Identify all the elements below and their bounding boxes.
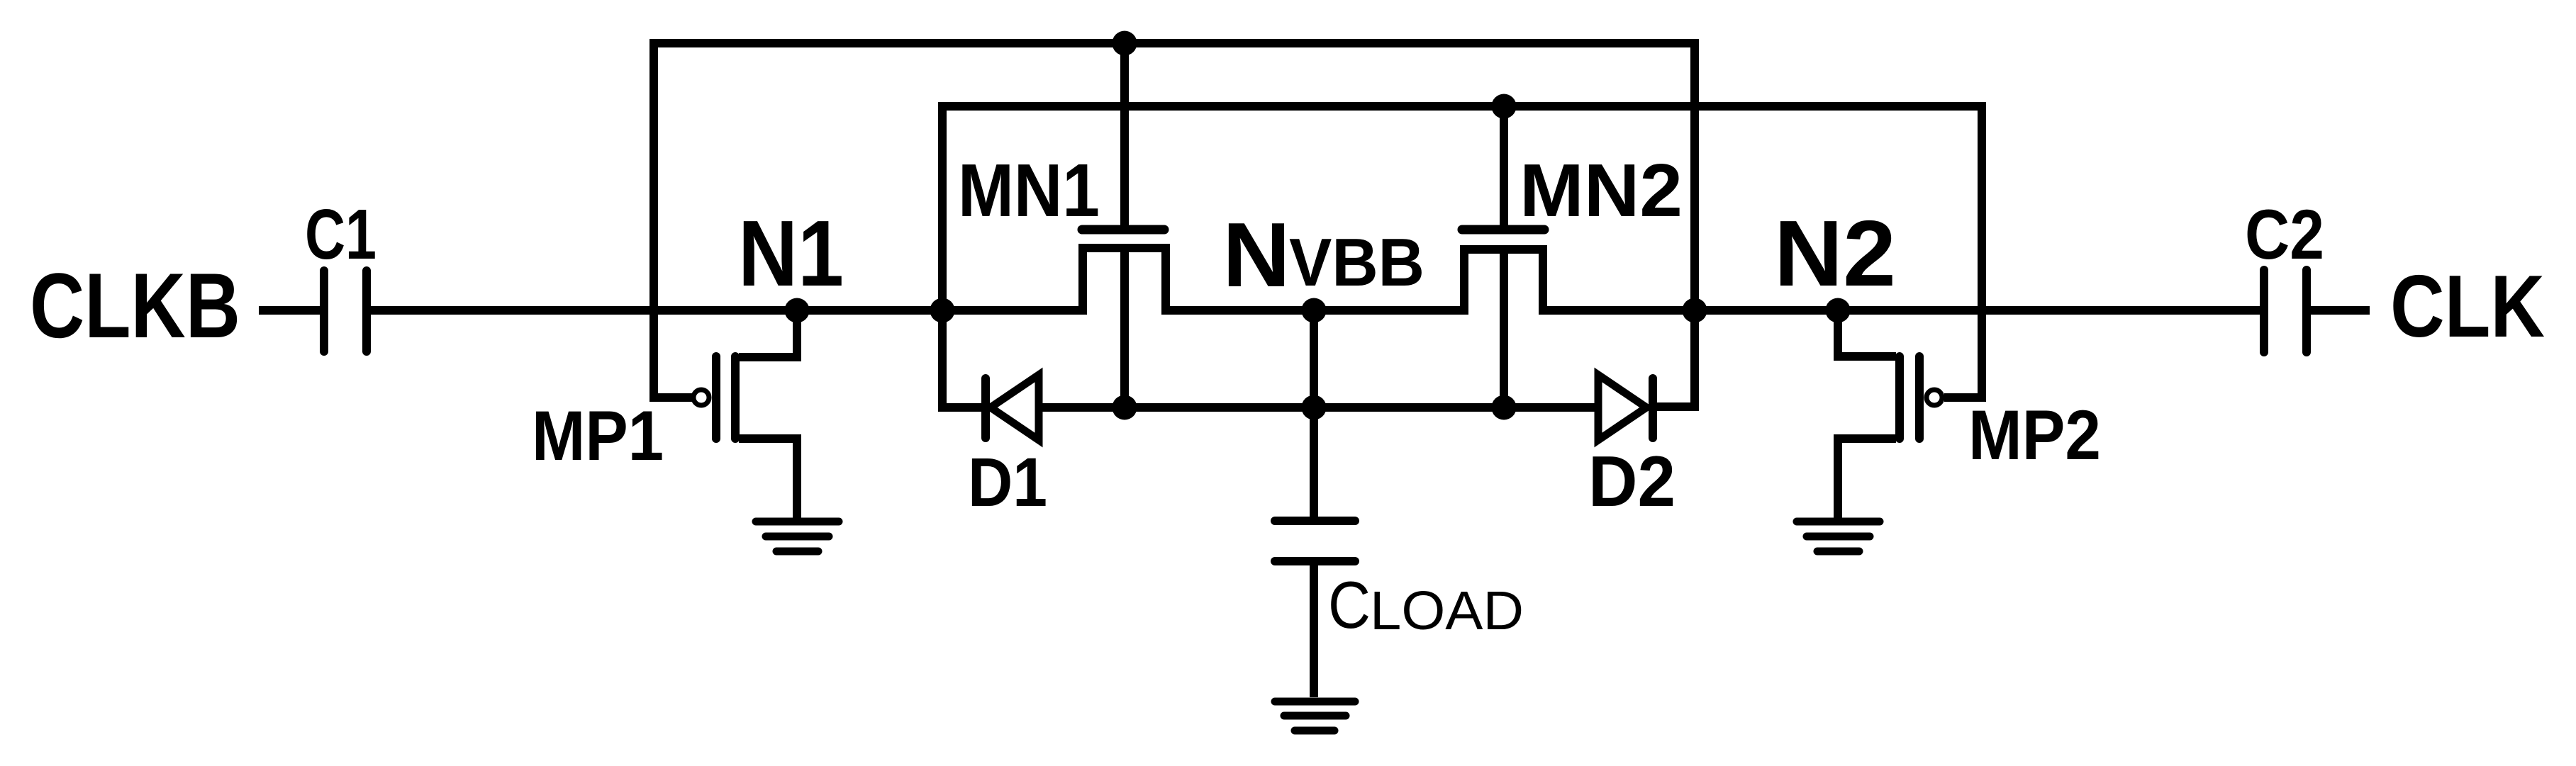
svg-text:MN1: MN1	[958, 149, 1100, 232]
svg-text:CLK: CLK	[2390, 258, 2545, 356]
svg-text:CLKB: CLKB	[30, 254, 240, 357]
svg-text:VBB: VBB	[1289, 225, 1424, 300]
ground (MP1)	[756, 522, 839, 551]
svg-text:MP2: MP2	[1968, 395, 2101, 474]
svg-text:N: N	[1222, 204, 1290, 306]
ground (CLOAD)	[1275, 702, 1355, 731]
ground (MP2)	[1797, 522, 1880, 551]
wire CLKB to C1	[259, 306, 320, 315]
capacitor CLOAD	[1275, 407, 1355, 697]
transistor MN2	[1462, 106, 1544, 407]
wire NVBB node to bottom rail	[1310, 310, 1318, 407]
diode D2	[1598, 375, 1653, 440]
node N2 dot	[1826, 298, 1851, 323]
capacitor C1	[324, 271, 367, 351]
node dot main rail / D2 branch	[1683, 298, 1707, 323]
node dot MN2 gate / inner wire	[1492, 94, 1517, 119]
node dot main rail / left loop	[930, 298, 955, 323]
wire inner loop: D1 cathode up, across, down to MP2 gate	[942, 106, 1982, 407]
node N1 dot	[785, 298, 810, 323]
svg-text:D1: D1	[968, 444, 1047, 521]
svg-text:C1: C1	[305, 195, 377, 274]
svg-text:LOAD: LOAD	[1370, 580, 1524, 641]
node dot MN1 gate / top wire	[1113, 31, 1137, 56]
diode D1	[986, 375, 1039, 440]
wire C2 to CLK	[2311, 306, 2370, 315]
wire bottom rail: D1 anode to D2 anode	[1037, 403, 1600, 412]
wire main rail segment A: C1 to MN1	[371, 306, 1087, 315]
transistor MN1	[1082, 43, 1166, 407]
capacitor C2	[2264, 270, 2307, 352]
svg-text:MN2: MN2	[1520, 149, 1683, 232]
svg-text:N2: N2	[1774, 201, 1896, 305]
wire main rail segment B: MN1 to MN2	[1161, 306, 1468, 315]
svg-text:N1: N1	[738, 201, 844, 305]
transistor MP1	[693, 310, 797, 522]
svg-text:MP1: MP1	[532, 396, 664, 475]
wire top loop: MP1 gate up, across top, down to D2 cathode	[654, 43, 1695, 407]
svg-text:D2: D2	[1588, 442, 1675, 522]
svg-text:C: C	[1328, 568, 1371, 642]
svg-text:C2: C2	[2245, 195, 2324, 274]
node dot bottom rail / MN2 bulk	[1492, 395, 1517, 420]
node dot bottom rail / CLOAD	[1302, 395, 1327, 420]
node dot bottom rail / MN1 bulk	[1113, 395, 1137, 420]
wire main rail segment C: MN2 to C2	[1539, 306, 2260, 315]
transistor MP2	[1838, 310, 1942, 522]
node NVBB dot	[1302, 298, 1327, 323]
